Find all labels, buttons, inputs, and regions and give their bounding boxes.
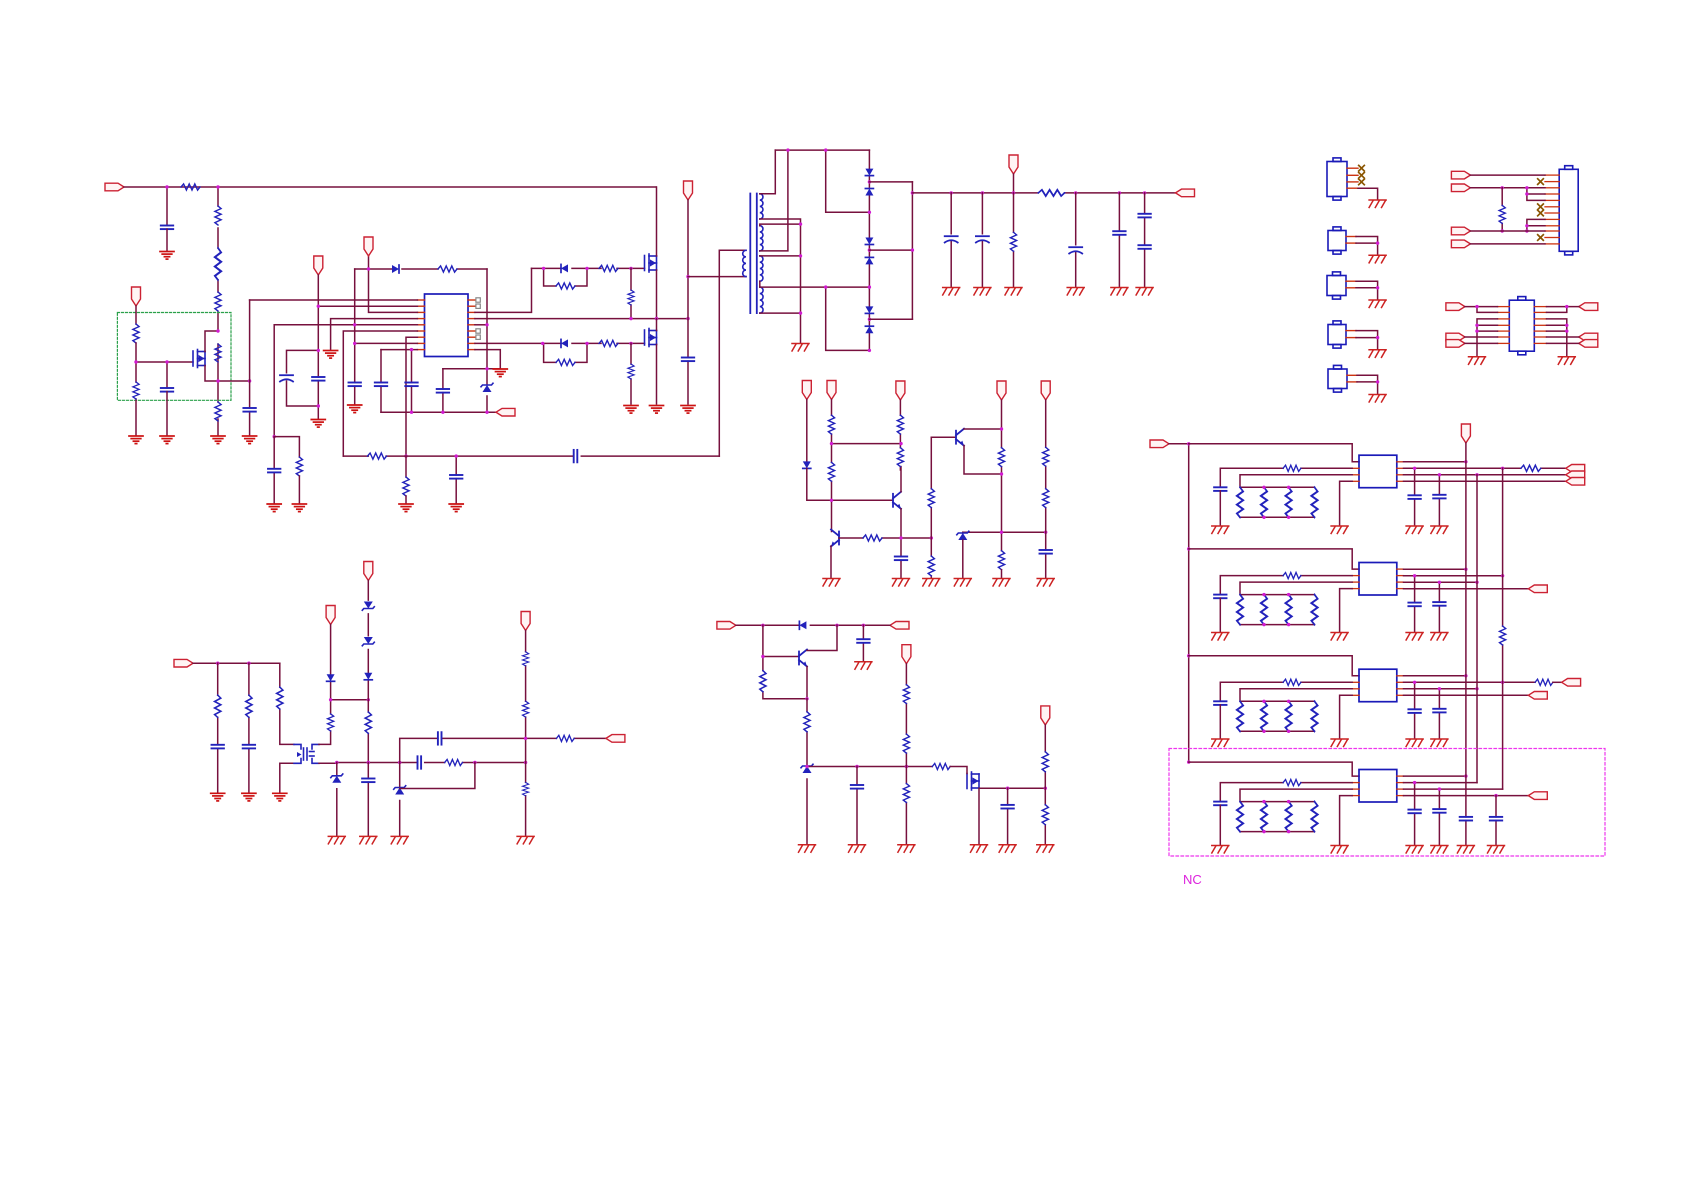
- resistor R ch3 out: [1535, 679, 1553, 685]
- resistor R ch2 sense2: [1261, 595, 1267, 625]
- wire: pin y312 to gate row: [475, 268, 532, 312]
- junction dots (gate top): [542, 267, 633, 270]
- ground (J3): [1369, 300, 1386, 308]
- capacitor C1: [161, 226, 173, 230]
- wire: J7 pins345 gnd left: [1477, 319, 1498, 356]
- junction dots (ch2 sense bus): [1262, 593, 1290, 626]
- wire: primary top lead: [719, 250, 746, 456]
- wire: J6 pins 8-9-10 link: [1527, 219, 1545, 231]
- capacitor C ch4 outB: [1433, 809, 1445, 813]
- wire: node A to gate: [136, 361, 193, 363]
- resistor R14 (bypass top): [556, 283, 575, 289]
- wire: J3 pins to gnd: [1356, 281, 1378, 299]
- junction dots ch2 right: [1413, 568, 1504, 584]
- capacitor C25: [212, 745, 224, 749]
- wire: x931 column: [930, 437, 932, 578]
- port P8: [1009, 155, 1018, 174]
- port P11: [1041, 381, 1050, 400]
- U1 pin stubs: [417, 300, 475, 350]
- resistor R16 (gate bottom): [599, 340, 618, 346]
- resistor R41: [246, 695, 252, 717]
- ground (ch4 outA): [1406, 846, 1423, 854]
- wire: U1 pin1 to startup node: [250, 299, 418, 301]
- U5 pin stubs: [1352, 776, 1403, 796]
- ground (C23): [849, 845, 866, 853]
- junction dots (J6 upper): [1501, 186, 1529, 196]
- capacitor C ch4 outD: [1490, 817, 1502, 821]
- wire: x825 upper link: [826, 150, 870, 212]
- wire: D20 leg: [399, 763, 401, 836]
- wire: C2 to ground: [166, 392, 168, 435]
- wire: P13 column upper: [831, 400, 833, 532]
- wire: Q1 drain to top rail: [656, 187, 658, 256]
- wire: Q5 emitter leg: [900, 509, 902, 578]
- resistor R39: [1042, 805, 1048, 825]
- junction dots (output rail): [950, 191, 1147, 194]
- junction dots (J7 right): [1565, 324, 1568, 333]
- wire: ch1 row2 left: [1220, 468, 1352, 487]
- wire: Q4 base row y538: [839, 537, 931, 539]
- wire: D19 leg: [336, 763, 338, 836]
- junction dot: [1376, 336, 1379, 339]
- wire: R12 hang: [405, 456, 407, 477]
- resistor R6 (below box): [215, 402, 221, 421]
- ground (R8): [129, 436, 143, 444]
- ground (D12): [954, 579, 971, 587]
- port P31 (LED4): [1528, 792, 1547, 800]
- resistor R11 (rail series): [368, 453, 387, 459]
- wire: cap to ground ch3: [1219, 705, 1221, 738]
- wire: J6 pin3 row: [1470, 187, 1545, 189]
- wire: P12 to base row: [807, 468, 893, 500]
- ground (ch4 left cap): [1212, 846, 1229, 854]
- resistor R ch1 sense1: [1237, 487, 1243, 517]
- J3 pin stubs: [1346, 281, 1356, 288]
- wire: Q9 out to rail: [319, 762, 337, 764]
- wire: pin5 cap leg: [273, 437, 275, 503]
- capacitor C ch3 outB: [1433, 709, 1445, 713]
- resistor R40: [215, 695, 221, 717]
- wire: diode string column: [868, 150, 870, 350]
- resistor R29: [998, 551, 1004, 570]
- connector J5: [1328, 365, 1347, 392]
- port P27 (LED1-): [1566, 478, 1585, 486]
- wire: ch2 row1 right: [1404, 568, 1466, 570]
- capacitor C2: [161, 388, 173, 392]
- ground (Q8): [971, 845, 988, 853]
- no-connect x J1-2: [1359, 173, 1365, 179]
- wire: ch4 row2 left: [1220, 783, 1352, 802]
- junction dot: [455, 454, 458, 457]
- wire: U1 pin8 to x354 node: [355, 342, 418, 344]
- ground (C10): [267, 504, 281, 512]
- wire: ch1 row4 right: [1404, 480, 1566, 482]
- no-connect x J6-2: [1538, 179, 1544, 185]
- wire: J6 pin12 row: [1470, 243, 1545, 245]
- capacitor C29 (series): [438, 732, 442, 744]
- diode D5: [865, 169, 873, 176]
- wire: comp rail y738.4: [400, 738, 606, 762]
- resistor R47: [523, 652, 529, 666]
- wire: ch4 row3 to sense bus: [1240, 789, 1352, 832]
- junction dots (feed bus): [1187, 442, 1190, 764]
- diode D9: [865, 306, 873, 313]
- port P18: [174, 659, 193, 667]
- capacitor C ch4 outC: [1460, 817, 1472, 821]
- wire: ch1 rail to chip: [1189, 444, 1359, 462]
- junction dot: [1565, 305, 1568, 308]
- resistor R9 (feed): [438, 266, 457, 272]
- no-connect x J6-7: [1538, 210, 1544, 216]
- wire: U1 right pin y324.8 to zener: [475, 324, 487, 326]
- resistor R28: [998, 448, 1004, 467]
- resistor R35: [903, 784, 909, 803]
- wire: J7 pin1/2 left: [1465, 307, 1498, 313]
- port P20: [364, 562, 373, 581]
- ground (C2): [160, 436, 174, 444]
- wire: x825 lower link: [826, 287, 870, 350]
- junction dot: [524, 737, 527, 740]
- wire: ch3 row2 left: [1220, 682, 1352, 701]
- junction dots (y663): [216, 662, 251, 665]
- transistor Q3 (startup MOSFET): [193, 350, 205, 368]
- port P9: [896, 381, 905, 400]
- wire: bottom rail y456 (resonant): [343, 455, 719, 457]
- transistor Q7: [799, 650, 807, 667]
- wire: ch1 row4 to ground: [1340, 481, 1353, 525]
- junction dots (J6 lower): [1501, 224, 1529, 233]
- resistor R7: [133, 324, 139, 343]
- capacitor C19: [1138, 245, 1150, 249]
- wire: P2 to R7: [135, 306, 137, 324]
- capacitor C ch3 outA: [1408, 709, 1420, 713]
- wire: ch2 rail to chip: [1189, 549, 1359, 569]
- port P19: [326, 606, 335, 625]
- wire: C1 leg: [166, 187, 168, 226]
- wire: J7 pin6/7 right: [1547, 337, 1579, 343]
- wire: x762 column: [763, 625, 807, 699]
- ground (C6): [348, 405, 362, 413]
- port P24 (LED V+): [1461, 424, 1470, 443]
- resistor R24: [897, 415, 903, 434]
- J2 pin stubs: [1346, 237, 1356, 244]
- port P38: [1446, 340, 1465, 348]
- ground (D14): [799, 845, 816, 853]
- junction dots (Q5 area): [830, 442, 933, 540]
- wire: ch3 row2 right: [1404, 681, 1536, 683]
- capacitor C27 (series): [418, 756, 422, 768]
- connector J7: [1509, 297, 1534, 355]
- wire: cap C8 column x381: [380, 350, 382, 413]
- junction dot: [273, 435, 276, 438]
- ground (Q4): [823, 579, 840, 587]
- wire: J7 pin1/2 right: [1547, 307, 1579, 313]
- capacitor C13 (resonant): [682, 358, 694, 362]
- junction dots (startup cell): [134, 185, 251, 382]
- wire: D12 gnd: [962, 540, 964, 578]
- op-amp U4 (LED driver ch3): [1359, 669, 1397, 702]
- ground (C12): [449, 504, 463, 512]
- wire: Q4 emitter to gnd: [830, 546, 832, 578]
- U4 pin stubs: [1352, 676, 1403, 696]
- resistor R ch4 sense2: [1261, 802, 1267, 832]
- junction dots (x688): [686, 275, 689, 278]
- wire: center tap bus x800: [800, 224, 802, 343]
- ground (x279): [273, 793, 287, 801]
- ground (R6): [211, 436, 225, 444]
- capacitor C22: [857, 639, 869, 643]
- wire: node row y443.6: [832, 443, 902, 445]
- wire: bypass bottom: [544, 343, 587, 362]
- capacitor C ch4 outA: [1408, 810, 1420, 814]
- transistor Q1 (high side MOSFET): [645, 254, 657, 272]
- wire: ch3 row3 right: [1404, 688, 1478, 690]
- wire: R20 leg: [1013, 193, 1015, 287]
- port P25 (LED1+): [1566, 465, 1585, 473]
- wire: x217 column: [217, 663, 219, 792]
- ground (C14): [943, 288, 960, 296]
- wire: Q1 source to mid rail: [656, 270, 658, 319]
- wire: x807 column: [806, 699, 808, 844]
- capacitor C16 (electrolytic): [1069, 247, 1082, 253]
- wire: R7 to node A: [135, 343, 137, 362]
- ground (ch4 gnd pin): [1331, 846, 1348, 854]
- resistor R15: [628, 290, 634, 305]
- wire: diode row y269: [355, 268, 487, 270]
- resistor R ch3 row2: [1283, 679, 1301, 685]
- wire: Q7 collector path: [807, 625, 837, 650]
- no-connect x J6-6: [1538, 204, 1544, 210]
- port P14: [717, 622, 736, 630]
- junction dots (ch1 sense bus): [1262, 486, 1290, 519]
- wire: U1 pin7 to RC: [406, 337, 417, 456]
- wire: Q6 collector to P10: [964, 428, 1002, 430]
- wire: C24 leg: [1007, 788, 1009, 844]
- wire: ch2 out cap A leg: [1414, 576, 1416, 632]
- wire: W1-W2 tap bus: [760, 219, 801, 226]
- junction dot: [1376, 380, 1379, 383]
- connector J3: [1327, 272, 1346, 299]
- wire: x525 column: [525, 631, 527, 836]
- ground (ch2 outA): [1406, 633, 1423, 641]
- wire: R15 column: [630, 268, 632, 318]
- capacitor C20: [895, 557, 907, 561]
- wire: ch4 row4 right: [1404, 795, 1529, 797]
- wire: C18/C19 leg: [1144, 193, 1146, 287]
- wire: P8 stub: [1013, 174, 1015, 193]
- wire: zener column x487: [486, 269, 488, 412]
- junction dots (transformer): [786, 148, 827, 314]
- port P12: [802, 381, 811, 400]
- wire: ch3 row3 to sense bus: [1240, 689, 1352, 732]
- ground (R27): [923, 579, 940, 587]
- wire: gate row bottom y343: [543, 342, 645, 344]
- junction dots (rail y762): [335, 761, 527, 764]
- ground (R12): [399, 504, 413, 512]
- capacitor C12: [450, 475, 462, 479]
- ground (R39): [1037, 845, 1054, 853]
- J4 pin stubs: [1346, 331, 1356, 338]
- inductor W1 (secondary 1): [760, 194, 763, 219]
- resistor R ch1 out: [1521, 465, 1541, 471]
- junction dots (y700): [329, 698, 370, 701]
- resistor R37: [903, 734, 909, 753]
- resistor R8: [133, 382, 139, 399]
- wire: x248 column: [248, 663, 250, 792]
- ground (ch3 outA): [1406, 739, 1423, 747]
- capacitor C ch3 left: [1214, 701, 1226, 705]
- resistor R25: [897, 448, 903, 467]
- connector J2: [1328, 227, 1346, 254]
- wire: P12 diode leg: [806, 400, 808, 462]
- no-connect x J1-1: [1359, 165, 1365, 171]
- capacitor C ch4 left: [1214, 802, 1226, 806]
- junction dots (y532 row): [1000, 427, 1048, 534]
- wire: cap to ground ch2: [1219, 598, 1221, 632]
- wire: ch3 out cap A leg: [1414, 682, 1416, 738]
- capacitor C ch1 outA: [1408, 495, 1420, 499]
- U3 pin stubs: [1352, 569, 1403, 589]
- wire: cap C7 column x411.5: [411, 350, 413, 413]
- resistor R ch3 sense3: [1286, 701, 1292, 731]
- ground (Q5 emitter): [893, 579, 910, 587]
- wire: top rail y187: [124, 186, 656, 188]
- capacitor C8: [375, 383, 387, 387]
- wire: source rail y762.5: [337, 762, 526, 764]
- wire: ch3 row4 to ground: [1340, 695, 1353, 738]
- wire: W1 top lead: [760, 150, 776, 194]
- resistor R34: [932, 763, 950, 769]
- wire: J2 pins to gnd: [1356, 237, 1378, 255]
- port P40: [1579, 333, 1598, 341]
- resistor R30: [1043, 447, 1049, 466]
- port P7 (VOUT): [1176, 189, 1195, 197]
- wire: W3 top lead: [760, 255, 801, 257]
- ground (ch2 gnd pin): [1331, 633, 1348, 641]
- diode D1 (feed): [392, 265, 399, 273]
- resistor R44: [365, 712, 371, 733]
- capacitor C14 (electrolytic): [945, 236, 958, 242]
- wire: C22 leg: [862, 625, 864, 661]
- junction dots (Q7): [761, 655, 809, 701]
- wire: cap to ground ch4: [1219, 805, 1221, 845]
- resistor R21: [828, 415, 834, 434]
- wire: J7 pins345 gnd right: [1547, 319, 1567, 356]
- wire: J5 pins to gnd: [1357, 375, 1378, 394]
- port P37: [1446, 333, 1465, 341]
- capacitor C18: [1138, 214, 1150, 218]
- capacitor C9: [437, 389, 449, 393]
- capacitor C7: [405, 383, 417, 387]
- resistor R49: [523, 782, 529, 795]
- resistor R20 (bleeder): [1010, 232, 1016, 251]
- wire: ch2 row2 left: [1220, 576, 1352, 595]
- port P6 (COMP): [496, 408, 515, 416]
- capacitor C6 (x354): [349, 383, 361, 387]
- ground (transformer CT): [792, 344, 809, 352]
- wire: pin5 res branch: [274, 437, 299, 457]
- wire: Q3 source rail: [205, 366, 250, 382]
- port P26 (LED1): [1566, 471, 1585, 479]
- wire: x354 column: [354, 269, 356, 404]
- connector J4: [1328, 321, 1346, 348]
- transformer T1 core: [750, 194, 757, 314]
- ground (C1): [160, 252, 174, 260]
- inductor W0 (primary): [743, 250, 746, 276]
- resistor R ch2 sense3: [1286, 595, 1292, 625]
- resistor R1 (input, horizontal): [181, 184, 200, 190]
- J6 pin stubs: [1545, 175, 1559, 244]
- port P5: [684, 181, 693, 200]
- wire: J6 pin10 row: [1470, 230, 1545, 232]
- port P34: [1451, 227, 1470, 235]
- diode D8: [865, 257, 873, 264]
- resistor R ch1 sense3: [1286, 487, 1292, 517]
- ground (C3): [243, 436, 257, 444]
- capacitor C26: [243, 745, 255, 749]
- wire: vertical link x1477: [1476, 475, 1478, 783]
- capacitor C ch2 outA: [1408, 603, 1420, 607]
- resistor R ch2 sense4: [1311, 595, 1317, 625]
- wire: Q2 source: [656, 345, 658, 405]
- wire: C15 leg: [981, 193, 983, 287]
- diode D13: [799, 621, 806, 629]
- ground (R49): [517, 836, 534, 844]
- inductor W3 (secondary 3): [760, 256, 763, 281]
- resistor R ch4 sense4: [1311, 802, 1317, 832]
- inductor W2 (secondary 2): [760, 226, 763, 251]
- resistor R17 (bypass bottom): [556, 359, 575, 365]
- wire: C23 leg: [856, 767, 858, 845]
- junction dots (gate row): [805, 765, 908, 768]
- port P39: [1579, 303, 1598, 311]
- resistor R12: [403, 477, 409, 496]
- capacitor C4 (P3 column): [312, 377, 324, 381]
- wire: R8 leg: [135, 362, 137, 435]
- wire: ch2 row3 to sense bus: [1240, 582, 1352, 625]
- port P3: [314, 256, 323, 275]
- wire: J4 pins to gnd: [1356, 331, 1378, 349]
- ground (ch1 left cap): [1212, 526, 1229, 534]
- resistor R50: [1499, 205, 1505, 223]
- wire: ch3 rail to chip: [1189, 656, 1359, 676]
- port P35: [1451, 240, 1470, 248]
- wire: bypass top: [544, 268, 587, 286]
- ground (C28): [360, 836, 377, 844]
- transistor Q5: [893, 492, 901, 509]
- ground (R35): [898, 845, 915, 853]
- wire: y700 link: [331, 699, 369, 701]
- wire: vertical link x1502.6 with resistor: [1502, 468, 1504, 789]
- ground (C24): [999, 845, 1016, 853]
- zener D2: [481, 383, 493, 392]
- ground (J2): [1369, 255, 1386, 262]
- resistor R13 (gate top): [599, 265, 618, 271]
- capacitor C23: [851, 785, 863, 789]
- wire: ch1 row1 right: [1404, 461, 1466, 463]
- resistor R43: [328, 714, 334, 731]
- wire: C12 hang: [455, 456, 457, 503]
- wire: P14-P15 row y625: [736, 624, 890, 626]
- ground (C17): [1111, 288, 1128, 296]
- port P23 (channel feed): [1150, 440, 1169, 448]
- J5 pin stubs: [1347, 375, 1357, 382]
- ground (C13): [681, 406, 695, 414]
- wire: ch1 out cap B leg: [1438, 475, 1440, 525]
- diode D18: [364, 673, 372, 680]
- resistor R48: [523, 701, 529, 717]
- inductor W4 (secondary 4): [760, 287, 763, 313]
